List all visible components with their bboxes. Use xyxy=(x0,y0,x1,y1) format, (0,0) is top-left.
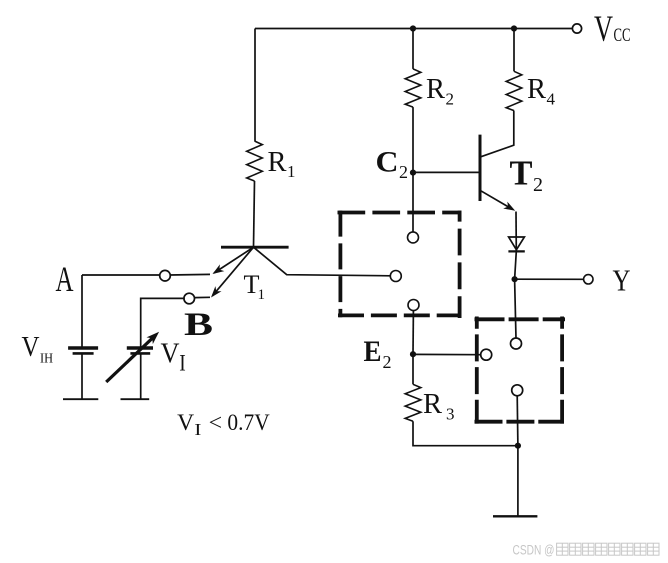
box1 pin circle top xyxy=(408,232,419,243)
wire diode to node Y xyxy=(515,251,517,279)
wire R2 bottom to C2 xyxy=(412,107,414,173)
wire R3 bottom xyxy=(413,421,518,446)
svg-text:Y: Y xyxy=(613,263,631,298)
ground B xyxy=(121,398,150,400)
diode D xyxy=(509,237,525,250)
wire R1 bottom xyxy=(254,181,255,247)
dashed box 2 xyxy=(475,317,566,424)
wire R4 top xyxy=(513,29,515,72)
svg-text:2: 2 xyxy=(533,174,543,196)
svg-text:I: I xyxy=(194,420,201,439)
terminal Y xyxy=(584,275,593,284)
wire to Y terminal xyxy=(515,278,584,280)
battery VIH plate short xyxy=(73,352,94,355)
box1 pin circle middle xyxy=(390,271,401,282)
wire R2 top xyxy=(412,29,414,69)
label T2 xyxy=(510,154,544,197)
label A xyxy=(56,259,74,299)
label Y xyxy=(613,263,631,298)
wire A vertical xyxy=(81,275,83,347)
wire node to box2 top xyxy=(515,279,516,338)
transistor T1 base bar xyxy=(221,246,289,249)
label VI xyxy=(161,338,186,376)
svg-text:V: V xyxy=(22,332,40,363)
label E2 xyxy=(364,335,392,372)
svg-text:2: 2 xyxy=(383,352,392,372)
transistor T1 collector xyxy=(254,247,391,276)
wire top rail Vcc xyxy=(255,28,572,30)
wire T2 emitter to diode xyxy=(515,212,517,252)
svg-text:C: C xyxy=(376,146,399,179)
svg-text:B: B xyxy=(184,307,213,343)
svg-text:R: R xyxy=(268,146,288,178)
label T1 xyxy=(244,270,266,303)
watermark CSDN xyxy=(513,543,555,558)
transistor T1 emitter 1 arrowhead xyxy=(213,264,225,274)
svg-text:T: T xyxy=(510,154,533,193)
wire box2 bottom to junction xyxy=(516,395,519,445)
svg-text:1: 1 xyxy=(287,162,296,181)
wire R1 top xyxy=(254,29,256,142)
label C2 xyxy=(376,146,409,183)
svg-text:CC: CC xyxy=(614,25,631,46)
wire E2 to R3 xyxy=(412,354,414,384)
label R2 xyxy=(426,73,454,109)
svg-text:3: 3 xyxy=(446,405,455,424)
wire VI to ground xyxy=(140,353,142,399)
junction node ground xyxy=(515,443,521,449)
resistor R2 xyxy=(405,69,421,107)
wire input B left xyxy=(141,298,185,346)
transistor T1 emitter 2 xyxy=(213,247,254,296)
svg-text:I: I xyxy=(179,351,186,376)
box2 pin circle top xyxy=(511,338,522,349)
wire VIH to ground xyxy=(81,353,83,399)
box1 pin circle bottom xyxy=(408,300,419,311)
transistor T2 collector xyxy=(480,111,514,158)
diode D cathode bar xyxy=(508,250,524,252)
transistor T2 bar xyxy=(479,135,482,201)
svg-text:R: R xyxy=(426,73,446,105)
terminal Vcc xyxy=(572,24,581,33)
label R3 xyxy=(423,388,455,424)
resistor R3 xyxy=(405,384,421,421)
node A input circle xyxy=(160,270,171,281)
wire input A right xyxy=(170,273,210,276)
junction node R2 top xyxy=(410,25,416,31)
variable source VI arrowhead xyxy=(147,332,160,344)
label VIH xyxy=(22,332,54,366)
transistor T2 emitter xyxy=(480,190,512,209)
junction node R4 top xyxy=(511,25,517,31)
wire input A left xyxy=(82,274,160,276)
box2 pin circle bottom xyxy=(512,385,523,396)
svg-text:E: E xyxy=(364,335,382,368)
svg-text:2: 2 xyxy=(399,162,408,182)
svg-text:4: 4 xyxy=(547,90,556,109)
svg-text:V: V xyxy=(594,9,613,50)
wire E2 to box2 xyxy=(413,353,481,355)
wire C2 into box1 xyxy=(412,173,414,232)
transistor T1 emitter 1 xyxy=(214,247,254,273)
battery VIH plate long xyxy=(68,346,98,349)
wire input B right xyxy=(195,296,210,298)
svg-text:A: A xyxy=(56,259,74,299)
resistor R1 xyxy=(247,141,263,181)
dashed box 1 xyxy=(338,211,462,318)
svg-text:V: V xyxy=(177,410,194,436)
svg-text:V: V xyxy=(161,338,180,370)
node C2 xyxy=(410,170,416,176)
svg-text:R: R xyxy=(423,388,443,420)
junction node output xyxy=(511,276,517,282)
label R4 xyxy=(527,73,556,109)
box2 pin circle left xyxy=(481,349,492,360)
wire T2 base xyxy=(413,171,479,173)
svg-text:<: < xyxy=(209,410,223,436)
wire to ground xyxy=(517,446,519,517)
svg-text:0.7V: 0.7V xyxy=(227,410,269,436)
node E2 xyxy=(410,351,416,357)
ground xyxy=(493,515,537,517)
resistor R4 xyxy=(506,71,522,110)
svg-text:R: R xyxy=(527,73,547,105)
label R1 xyxy=(268,146,296,181)
transistor T1 emitter 2 arrowhead xyxy=(211,286,222,297)
svg-text:1: 1 xyxy=(258,287,266,303)
battery VI plate short xyxy=(130,352,150,355)
label B xyxy=(184,307,213,343)
ground A xyxy=(63,398,98,400)
svg-text:2: 2 xyxy=(446,90,455,109)
label condition VI < 0.7V xyxy=(177,410,270,439)
node B input circle xyxy=(184,293,195,304)
transistor T2 emitter arrowhead xyxy=(503,202,515,211)
battery VI plate long xyxy=(127,346,153,349)
label Vcc xyxy=(594,9,631,50)
wire box1 bottom to E2 xyxy=(412,311,414,355)
variable source VI arrow xyxy=(106,336,155,382)
svg-text:IH: IH xyxy=(40,351,53,366)
svg-text:CSDN @: CSDN @ xyxy=(513,543,555,558)
